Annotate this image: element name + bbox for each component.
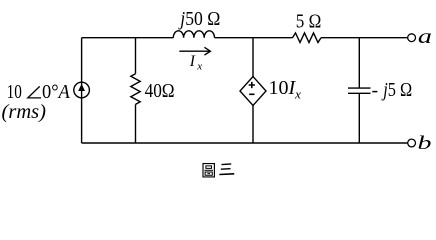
dependent source minus sign	[249, 93, 254, 95]
svg-text:j50 Ω: j50 Ω	[178, 8, 221, 30]
inductor L1 j50ohm	[173, 31, 214, 38]
arrow Ix current label	[179, 47, 210, 55]
dependent source plus sign	[249, 82, 255, 88]
terminal a circle	[408, 34, 416, 42]
svg-text:j5 Ω: j5 Ω	[381, 79, 412, 101]
svg-text:40Ω: 40Ω	[145, 80, 175, 102]
svg-text:5 Ω: 5 Ω	[296, 11, 322, 33]
svg-text:10: 10	[7, 81, 22, 103]
svg-text:a: a	[418, 26, 432, 48]
dependent source E1 diamond	[240, 77, 266, 106]
terminal b circle	[408, 139, 416, 147]
wire bottom horizontal	[82, 142, 408, 144]
wire left vertical	[81, 38, 83, 143]
current source I1 arrowhead	[78, 84, 85, 91]
capacitor C1 plates	[348, 88, 371, 93]
label -j5 ohm	[372, 91, 377, 93]
svg-text:(rms): (rms)	[2, 101, 47, 123]
wire top-middle horizontal	[215, 37, 293, 39]
wire dependent-source branch vertical	[252, 38, 254, 143]
svg-text:Ix: Ix	[189, 53, 203, 73]
svg-text:0°A: 0°A	[42, 81, 71, 103]
wire top-left horizontal	[82, 37, 174, 39]
wire capacitor branch vertical	[358, 38, 360, 143]
resistor 40ohm zigzag	[131, 74, 140, 105]
caption char san (three)	[219, 164, 234, 175]
wire top-right horizontal	[321, 37, 408, 39]
svg-text:10Ix: 10Ix	[269, 77, 302, 102]
caption char tu (figure)	[203, 164, 214, 177]
angle symbol of source value	[28, 86, 41, 98]
svg-text:b: b	[418, 133, 432, 154]
current source I1 circle	[74, 82, 90, 98]
wire 40-ohm branch vertical	[135, 38, 137, 143]
resistor 5ohm zigzag	[293, 33, 322, 43]
